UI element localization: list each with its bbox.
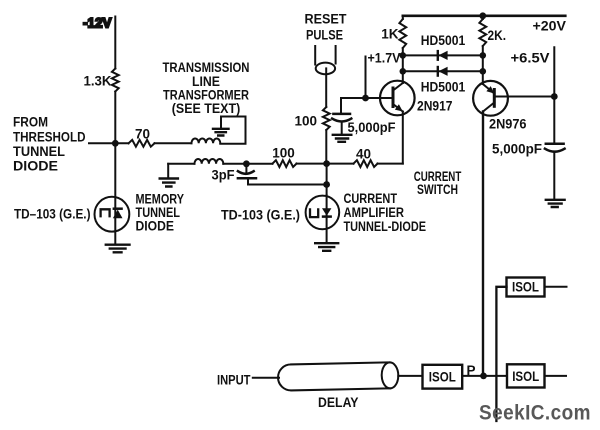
svg-text:2N917: 2N917 <box>417 99 453 114</box>
svg-text:100: 100 <box>294 114 317 129</box>
diode D2 HD5001 <box>437 67 439 76</box>
isolator box ISOL (after delay) <box>423 365 463 389</box>
transistor Q2 2N976 <box>473 81 508 116</box>
svg-text:INPUT: INPUT <box>217 373 251 388</box>
svg-text:ISOL: ISOL <box>512 280 539 295</box>
svg-text:DIODE: DIODE <box>136 219 175 234</box>
resistor 100 horizontal <box>273 160 297 167</box>
resistor 40 <box>354 160 378 167</box>
wire ISOL to node P <box>462 375 507 377</box>
isolator box ISOL (bottom right) <box>507 364 545 387</box>
inductor L1 transmission line <box>192 139 221 144</box>
resistor 2K <box>479 19 486 46</box>
wire 2N917 emitter down to 40 row <box>402 112 404 164</box>
wire 2N976 base to +6.5V line <box>494 96 554 98</box>
memory TD diode: bar + up triangle <box>113 207 123 210</box>
memory TD internal square <box>101 209 110 217</box>
svg-text:40: 40 <box>356 147 371 162</box>
wire 100 to junction <box>297 163 354 165</box>
ground memory TD <box>106 245 130 253</box>
svg-text:ISOL: ISOL <box>429 370 456 385</box>
node +1.7V annotation <box>368 51 401 66</box>
svg-text:5,000pF: 5,000pF <box>492 142 542 157</box>
node FROM THRESHOLD TUNNEL DIODE <box>13 114 86 173</box>
svg-text:SeekIC.com: SeekIC.com <box>479 401 591 425</box>
svg-text:TD–103 (G.E.): TD–103 (G.E.) <box>14 207 91 222</box>
wire 40 to emitter <box>378 163 403 165</box>
node junction rail / 2K <box>479 12 486 19</box>
svg-text:(SEE TEXT): (SEE TEXT) <box>172 101 241 116</box>
svg-text:AMPLIFIER: AMPLIFIER <box>344 205 405 220</box>
wire 100 down to row junction <box>325 130 327 164</box>
wire -12V vertical down to memory tunnel diode <box>114 17 116 244</box>
wire probe to 100 resistor <box>325 68 327 107</box>
svg-text:1K: 1K <box>381 27 399 42</box>
wire diode row 2 <box>403 70 483 72</box>
capacitor C1 5,000pF at 2N917 base <box>340 98 343 134</box>
wire +6.5V vertical <box>553 47 555 143</box>
svg-text:100: 100 <box>272 146 295 161</box>
svg-text:DELAY: DELAY <box>318 395 359 410</box>
svg-text:70: 70 <box>135 127 150 142</box>
wire to L2 <box>168 163 194 165</box>
delay line cylinder <box>278 362 399 391</box>
resistor 70 <box>129 140 155 147</box>
svg-text:2K.: 2K. <box>488 28 507 43</box>
resistor 1K <box>399 19 406 48</box>
ground transformer <box>213 129 229 136</box>
svg-text:P: P <box>466 363 475 378</box>
svg-text:FROM: FROM <box>13 114 48 129</box>
svg-text:+20V: +20V <box>533 19 567 34</box>
svg-text:CURRENT: CURRENT <box>344 191 398 206</box>
node label CURRENT SWITCH <box>414 169 462 197</box>
node INPUT <box>217 373 251 388</box>
wire 2K down to 2N976 emitter <box>482 16 484 84</box>
svg-text:HD5001: HD5001 <box>421 80 466 95</box>
svg-text:+6.5V: +6.5V <box>511 51 550 66</box>
reset pulse probe symbol <box>315 46 335 65</box>
node junction -12V line / input row <box>112 140 119 147</box>
svg-text:TD-103 (G.E.): TD-103 (G.E.) <box>221 208 300 223</box>
svg-text:SWITCH: SWITCH <box>417 182 458 197</box>
transformer bracket (transmission line transformer) <box>220 117 245 144</box>
svg-text:PULSE: PULSE <box>306 28 343 43</box>
wire ISOL top output <box>545 286 567 288</box>
inductor L2 <box>195 159 224 164</box>
node -12V supply <box>83 16 112 31</box>
resistor 100 vertical <box>323 107 330 130</box>
wire +1.7V stub down to base wire <box>365 57 367 99</box>
wire diode row 1 <box>403 54 483 56</box>
isolator box ISOL (top) <box>507 278 545 297</box>
node junction reset line / row <box>323 160 330 167</box>
current amp TD diode: down triangle + bar <box>322 215 332 218</box>
svg-text:THRESHOLD: THRESHOLD <box>13 129 86 144</box>
node RESET PULSE input <box>305 12 348 43</box>
node junction base / +1.7V <box>362 95 369 102</box>
wire L2 to junction <box>223 163 272 165</box>
wire 2N976 collector down to node P <box>482 112 484 376</box>
wire threshold input row <box>89 142 192 144</box>
svg-text:HD5001: HD5001 <box>421 33 466 48</box>
svg-text:TUNNEL-DIODE: TUNNEL-DIODE <box>344 219 427 234</box>
svg-text:TRANSMISSION: TRANSMISSION <box>163 60 250 75</box>
ground current amp TD <box>315 243 338 251</box>
wire 2N917 base <box>341 97 393 99</box>
capacitor 3pF <box>245 164 247 172</box>
wire 1K vertical to 2N917 collector <box>402 16 404 83</box>
wire branch up to ISOL top <box>496 287 506 421</box>
svg-text:TUNNEL: TUNNEL <box>13 144 65 159</box>
wire junction down to current amp TD <box>326 164 328 195</box>
wire current amp TD vertical through <box>326 195 328 242</box>
svg-text:+1.7V: +1.7V <box>368 51 401 66</box>
ground C1 <box>333 135 352 142</box>
svg-text:3pF: 3pF <box>212 168 235 183</box>
node +6.5V annotation <box>511 51 550 66</box>
node junction at TD top wire <box>323 181 330 188</box>
ground C2 <box>546 200 565 207</box>
svg-text:DIODE: DIODE <box>13 159 58 174</box>
node junctions diode row 2 <box>400 68 407 75</box>
capacitor C2 5,000pF right <box>553 153 555 199</box>
svg-text:-12V: -12V <box>83 16 112 31</box>
node junction 3pF <box>243 160 250 167</box>
resistor R 1.3K <box>112 69 119 92</box>
transistor Q1 2N917 <box>380 81 415 116</box>
wire +20V top rail <box>403 15 566 18</box>
svg-text:1.3K: 1.3K <box>84 74 112 89</box>
tunnel diode TD-103 current amplifier: circle <box>306 196 340 230</box>
wire delay to ISOL <box>398 375 422 377</box>
wire input to delay <box>253 377 279 379</box>
node junction base / +6.5V line <box>551 93 558 100</box>
tunnel diode TD-103 memory: circle <box>95 197 130 232</box>
diode D1 HD5001 <box>437 51 439 60</box>
node P <box>466 363 475 378</box>
node junctions diode row 1 <box>400 52 407 59</box>
wire ISOL bottom right output <box>545 375 567 377</box>
wire 3pF bottom row to current amp TD <box>248 184 327 186</box>
svg-text:2N976: 2N976 <box>489 117 527 132</box>
ground stub left of L2 <box>167 164 169 178</box>
svg-text:ISOL: ISOL <box>512 369 539 384</box>
svg-text:RESET: RESET <box>305 12 348 27</box>
svg-text:5,000pF: 5,000pF <box>348 120 396 135</box>
current amp TD internal square <box>310 208 318 217</box>
